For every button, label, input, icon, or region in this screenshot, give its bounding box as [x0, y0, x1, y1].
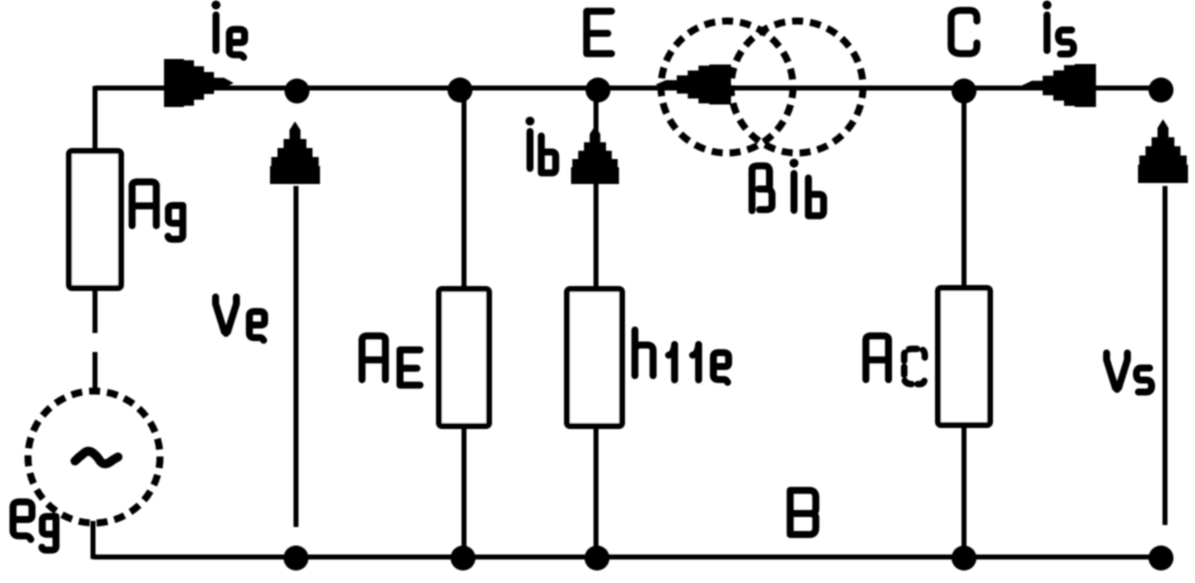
label beta-ib — [752, 159, 824, 216]
resistor Rg — [69, 151, 121, 288]
junction dot bottom RE — [451, 546, 476, 571]
junction dot bottom (ve node) — [284, 546, 309, 571]
resistor h11e — [567, 289, 622, 426]
wire top-left vertical from corner to Rg — [93, 86, 98, 153]
wire top horizontal (emitter rail) — [95, 86, 1163, 91]
wire bottom horizontal (base rail) — [93, 555, 1161, 560]
current arrow is — [1022, 64, 1096, 107]
current source beta-ib arrow — [656, 65, 731, 105]
resistor RE — [439, 289, 489, 426]
label Rg — [132, 182, 183, 239]
wire RE bottom — [462, 426, 467, 557]
junction dot bottom RC — [952, 546, 977, 571]
wire Rg to eg (lower segment) — [93, 352, 98, 392]
label ie — [212, 1, 245, 58]
junction dot node E — [586, 78, 611, 103]
source eg (dashed circle) — [28, 391, 160, 523]
wire RC top — [962, 88, 967, 290]
label ve — [216, 297, 265, 340]
resistor RC — [938, 288, 990, 425]
label RC — [866, 336, 925, 384]
current arrow ie — [164, 59, 234, 107]
wire RE top — [462, 88, 467, 291]
voltage arrow vs head — [1138, 119, 1188, 183]
current source beta-ib right circle — [731, 21, 863, 153]
voltage arrow ve line — [294, 186, 299, 527]
wire Rg to eg (upper segment) — [93, 288, 98, 333]
junction dot bottom h11e — [585, 546, 610, 571]
label is — [1043, 1, 1074, 55]
wire h11e top — [594, 88, 599, 291]
junction dot bottom right — [1149, 546, 1174, 571]
wire RC bottom — [962, 425, 967, 557]
node E label — [587, 11, 612, 53]
label ib — [526, 117, 556, 173]
voltage arrow vs line — [1163, 186, 1168, 525]
node B label — [790, 490, 816, 534]
node C label — [951, 10, 977, 53]
label eg — [13, 502, 56, 550]
junction dot top right — [1149, 78, 1174, 103]
current arrow ib head — [571, 126, 619, 184]
current source beta-ib left circle — [661, 21, 793, 153]
voltage arrow ve head — [270, 121, 320, 184]
junction dot top RE — [448, 78, 473, 103]
source eg sine symbol — [75, 451, 118, 464]
junction dot top (ve node) — [285, 79, 310, 104]
wire eg to bottom rail — [91, 521, 96, 559]
label h11e — [635, 330, 729, 382]
junction dot node C — [952, 79, 977, 104]
wire h11e bottom — [594, 426, 599, 557]
label RE — [362, 336, 420, 385]
label vs — [1107, 353, 1152, 392]
